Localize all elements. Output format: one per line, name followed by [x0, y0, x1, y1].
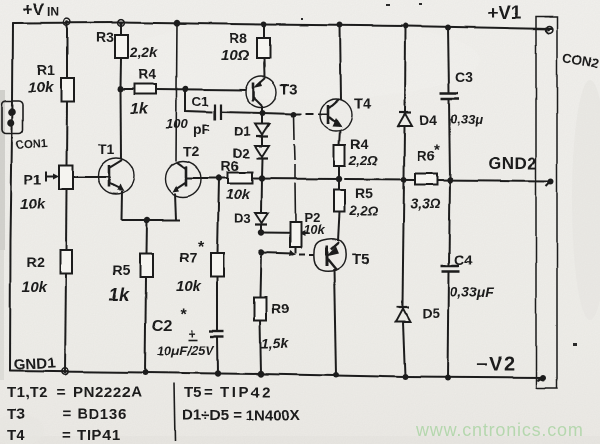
label R2 10k: [22, 254, 48, 296]
svg-text:C3: C3: [455, 69, 473, 85]
svg-text:T5: T5: [352, 251, 370, 268]
resistor R5 1k: [140, 220, 153, 373]
svg-text:+V1: +V1: [487, 3, 522, 24]
resistor R9: [254, 252, 266, 374]
resistor R4b 2,2: [334, 130, 345, 179]
label D5: [422, 305, 440, 321]
svg-text:R4: R4: [138, 66, 156, 82]
notes divider: [174, 383, 175, 441]
resistor R8: [257, 25, 270, 78]
capacitor C2 electrolytic: [209, 331, 224, 374]
svg-text:0,33μ: 0,33μ: [450, 112, 483, 127]
svg-text:TIP41: TIP41: [77, 427, 121, 444]
resistor R6* 3,3 horizontal: [415, 174, 437, 185]
diode D5: [396, 180, 410, 378]
svg-text:BD136: BD136: [77, 406, 128, 423]
svg-text:D3: D3: [234, 211, 251, 226]
diode D2: [255, 146, 269, 179]
junction node output GND2/R4/R5: [336, 176, 342, 182]
svg-text:3,3Ω: 3,3Ω: [410, 195, 440, 211]
svg-text:R9: R9: [271, 300, 289, 316]
label CON2: [561, 50, 599, 71]
svg-text:=: =: [57, 384, 66, 401]
label P2 10k: [303, 210, 325, 237]
svg-text:*: *: [434, 142, 440, 159]
wire T5 collector to bottom rail: [334, 269, 336, 375]
wire bottom rail GND1/-V2: [10, 371, 543, 378]
svg-text:10k: 10k: [22, 279, 48, 296]
wire emitter coupling T1/T2: [122, 219, 181, 221]
resistor R6 10k horizontal: [228, 173, 252, 184]
label +Vin: [23, 0, 59, 19]
watermark: [415, 420, 584, 440]
capacitor C4: [441, 180, 460, 378]
transistor T1: [98, 158, 134, 220]
svg-text:=: =: [62, 427, 71, 444]
label R4 1k: [130, 66, 156, 118]
svg-text:−V2: −V2: [476, 354, 517, 376]
svg-text:R6: R6: [221, 158, 239, 174]
label T1: [98, 141, 115, 157]
junction nodes on bottom rail: [62, 368, 451, 381]
label R5b 2,2Ω: [349, 185, 378, 218]
pin CON2 top: [546, 27, 553, 34]
label R5 1k: [109, 262, 130, 305]
pin CON2 bottom: [537, 375, 546, 381]
note T1,T2 = PN2222A: [7, 384, 142, 401]
svg-text:R2: R2: [27, 254, 45, 270]
resistor R5b 2,2: [334, 179, 345, 241]
svg-text:+V: +V: [23, 0, 45, 19]
svg-text:T1: T1: [98, 141, 115, 157]
svg-text:R8: R8: [229, 30, 247, 46]
svg-text:10k: 10k: [303, 222, 325, 237]
resistor R2: [60, 189, 72, 371]
junction node P2 bottom: [258, 249, 264, 255]
svg-text:D5: D5: [422, 305, 440, 321]
label C1 100pF: [166, 94, 211, 137]
diode D3: [255, 179, 268, 233]
wire T2 base to GND2 rail: [187, 177, 220, 179]
svg-text:T2: T2: [183, 143, 200, 159]
svg-text:R3: R3: [96, 29, 114, 45]
label C4 0,33μF: [450, 252, 495, 300]
wire T2 collector to +Vin: [176, 23, 177, 161]
transistor T2: [165, 161, 201, 220]
connector CON1: [2, 101, 23, 134]
svg-text:GND1: GND1: [13, 355, 56, 374]
svg-text:2,2Ω: 2,2Ω: [349, 203, 378, 218]
diode D4: [398, 26, 412, 179]
svg-text:T5: T5: [184, 384, 202, 401]
svg-text:2,2k: 2,2k: [129, 44, 158, 60]
label D2: [233, 146, 250, 161]
svg-text:D4: D4: [419, 112, 437, 128]
transistor T4: [320, 99, 352, 131]
svg-text:100: 100: [166, 116, 188, 131]
diode D1: [255, 124, 269, 146]
svg-text:*: *: [180, 307, 187, 324]
junction node T3 collector / C1: [260, 110, 266, 116]
svg-text:=: =: [204, 384, 213, 401]
wire top rail +Vin/+V1: [13, 23, 551, 30]
svg-text:0,33μF: 0,33μF: [450, 284, 495, 300]
junction node P2 top: [291, 112, 297, 118]
label T3: [280, 81, 298, 98]
svg-text:D1÷D5 = 1N400X: D1÷D5 = 1N400X: [182, 407, 300, 424]
label GND2: [488, 154, 537, 173]
svg-text:R5: R5: [112, 262, 130, 278]
junction node C1/R4: [182, 86, 188, 92]
svg-text:C4: C4: [454, 252, 472, 268]
wire P2 bottom: [261, 247, 296, 256]
transistor T3: [246, 77, 277, 108]
svg-text:10μF/25V: 10μF/25V: [157, 343, 215, 358]
svg-text:10k: 10k: [226, 186, 251, 202]
capacitor C3: [440, 27, 459, 180]
junction node D3/P2 wiper: [258, 229, 264, 235]
svg-text:C2: C2: [152, 318, 173, 335]
svg-text:IN: IN: [47, 5, 59, 19]
label -V2: [476, 354, 517, 376]
capacitor C1: [186, 89, 263, 120]
svg-text:1k: 1k: [109, 285, 130, 305]
note T4 = TIP41: [7, 427, 121, 444]
label D3: [234, 211, 251, 226]
wire T4 collector to top rail: [340, 25, 341, 100]
svg-text:R1: R1: [37, 62, 55, 78]
label D1: [234, 124, 251, 139]
label C2* + 10uF/25V: [152, 307, 215, 358]
svg-text:*: *: [198, 239, 205, 256]
svg-text:1,5k: 1,5k: [261, 335, 289, 351]
svg-text:R7: R7: [179, 249, 197, 265]
label R4b 2,2Ω: [348, 136, 377, 168]
label T5: [352, 251, 370, 268]
svg-text:T4: T4: [354, 96, 372, 113]
wire D3 to P2 wiper: [261, 230, 308, 236]
wire T3 collector to D1: [261, 106, 263, 124]
svg-text:P1: P1: [24, 171, 41, 187]
wire dashed P2 to T5 base: [299, 253, 314, 256]
svg-text:=: =: [62, 406, 71, 423]
wire left vertical rail: [10, 23, 13, 371]
label D4: [419, 112, 437, 128]
resistor R4 1k horizontal: [121, 84, 247, 94]
junction node R7 top: [216, 175, 222, 181]
svg-text:C1: C1: [192, 94, 209, 109]
svg-text:R4: R4: [350, 136, 368, 152]
junction node C3/C4 on GND2: [447, 177, 453, 183]
label R7* 10k: [176, 239, 205, 295]
label R1 10k: [28, 62, 55, 96]
resistor R3: [115, 23, 128, 90]
wire T3 collector node to T4 base: [262, 113, 321, 114]
svg-text:CON1: CON1: [15, 138, 48, 152]
note D1..D5 = 1N400X: [182, 407, 300, 424]
label C3 0,33μ: [450, 69, 483, 127]
junction node D4/D5 on GND2: [401, 177, 407, 183]
resistor R1: [61, 22, 74, 165]
label GND1: [13, 355, 56, 374]
svg-text:10k: 10k: [20, 196, 46, 213]
junction node R3/R4: [118, 86, 124, 92]
svg-text:R6: R6: [417, 148, 435, 164]
label P1 10k: [20, 171, 46, 213]
svg-text:10Ω: 10Ω: [221, 47, 250, 64]
svg-text:T4: T4: [7, 427, 25, 444]
label R9 1,5k: [261, 300, 289, 351]
svg-text:T3: T3: [280, 81, 298, 98]
svg-text:+: +: [188, 326, 196, 341]
svg-text:T3: T3: [7, 406, 25, 423]
transistor T5: [314, 239, 346, 272]
wire R3 to T1 collector: [120, 89, 123, 159]
resistor R7: [211, 178, 224, 330]
label T2: [183, 143, 200, 159]
label CON1: [15, 138, 48, 152]
label R6* 3,3Ω: [410, 142, 440, 211]
svg-text:D1: D1: [234, 124, 251, 139]
junction node D2/D3 on GND2 rail: [258, 175, 264, 181]
note T3 = BD136: [7, 406, 128, 423]
potentiometer P1: [46, 165, 98, 189]
svg-text:T1,T2: T1,T2: [7, 384, 48, 401]
svg-text:R5: R5: [355, 185, 373, 201]
svg-text:www.cntronics.com: www.cntronics.com: [415, 420, 584, 440]
label R3 2,2k: [96, 29, 158, 60]
svg-text:GND2: GND2: [488, 154, 537, 173]
svg-text:TIP42: TIP42: [220, 384, 273, 401]
label +V1: [487, 3, 522, 24]
label T4: [354, 96, 372, 113]
svg-text:PN2222A: PN2222A: [73, 384, 142, 401]
svg-text:pF: pF: [193, 121, 211, 137]
junction node emitters/R5: [144, 217, 150, 223]
potentiometer P2: [290, 115, 301, 248]
stray pen specks: [301, 3, 577, 346]
pin CON2 mid GND2: [546, 178, 554, 186]
label R6 10k: [221, 158, 251, 202]
svg-text:2,2Ω: 2,2Ω: [348, 153, 377, 168]
svg-text:10k: 10k: [28, 79, 54, 96]
svg-text:10k: 10k: [176, 278, 202, 295]
wire mid rail GND2: [187, 178, 552, 181]
connector CON2: [536, 17, 557, 388]
svg-text:1k: 1k: [130, 101, 149, 118]
label R8 10Ω: [221, 30, 250, 64]
note T5 = TIP42: [184, 384, 273, 401]
junction nodes on top rail: [64, 19, 451, 31]
